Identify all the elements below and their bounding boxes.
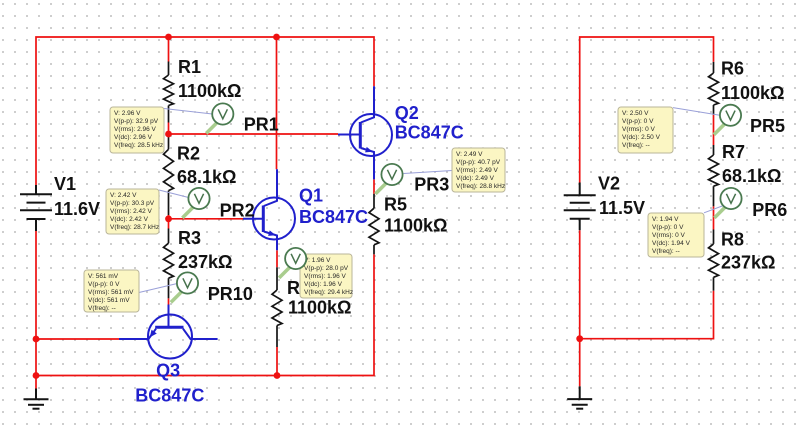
svg-text:V(freq): 28.5 kHz: V(freq): 28.5 kHz [114,142,163,149]
svg-text:V(freq): --: V(freq): -- [652,248,680,255]
svg-text:68.1kΩ: 68.1kΩ [177,167,236,187]
svg-text:V2: V2 [598,173,620,193]
svg-text:V: 2.42 V: V: 2.42 V [110,192,137,199]
svg-text:R1: R1 [178,57,201,77]
svg-text:68.1kΩ: 68.1kΩ [722,166,781,186]
svg-text:V: 2.50 V: V: 2.50 V [622,110,649,117]
svg-text:11.6V: 11.6V [54,199,100,219]
svg-text:R: R [287,278,300,298]
svg-text:V(freq): 28.7 kHz: V(freq): 28.7 kHz [110,224,159,231]
svg-text:V(dc): 1.94 V: V(dc): 1.94 V [652,240,691,247]
svg-text:V(rms): 561 mV: V(rms): 561 mV [88,289,134,296]
svg-text:PR1: PR1 [244,114,279,134]
svg-text:PR3: PR3 [414,175,449,195]
svg-text:V1: V1 [54,174,76,194]
svg-text:V(rms): 1.96 V: V(rms): 1.96 V [304,273,347,280]
svg-text:R5: R5 [384,195,407,215]
svg-text:R2: R2 [177,144,200,164]
svg-text:V: 561 mV: V: 561 mV [88,273,119,280]
svg-text:BC847C: BC847C [135,386,204,406]
svg-text:V(dc): 1.96 V: V(dc): 1.96 V [304,281,343,288]
svg-text:V(freq): --: V(freq): -- [88,305,116,312]
svg-text:V(dc): 2.42 V: V(dc): 2.42 V [110,216,149,223]
svg-text:V(p-p): 40.7 pV: V(p-p): 40.7 pV [456,159,501,166]
svg-text:Q3: Q3 [156,360,180,380]
svg-text:11.5V: 11.5V [599,198,645,218]
svg-text:V(rms): 2.96 V: V(rms): 2.96 V [114,126,157,133]
svg-text:BC847C: BC847C [299,207,368,227]
svg-text:Q2: Q2 [395,103,419,123]
svg-text:1100kΩ: 1100kΩ [288,298,352,318]
svg-text:PR6: PR6 [752,200,787,220]
svg-text:V: 2.49 V: V: 2.49 V [456,151,483,158]
svg-text:V(dc): 2.96 V: V(dc): 2.96 V [114,134,153,141]
svg-text:V(rms): 2.42 V: V(rms): 2.42 V [110,208,153,215]
svg-text:PR5: PR5 [750,116,785,136]
svg-text:V(freq): 29.4 kHz: V(freq): 29.4 kHz [304,289,353,296]
svg-text:V(p-p): 32.9 pV: V(p-p): 32.9 pV [114,118,159,125]
svg-text:Q1: Q1 [299,185,323,205]
svg-text:V(p-p): 30.3 pV: V(p-p): 30.3 pV [110,200,155,207]
svg-text:V: 1.96 V: V: 1.96 V [304,257,331,264]
svg-text:PR2: PR2 [220,200,255,220]
svg-text:237kΩ: 237kΩ [721,253,775,273]
svg-text:V(rms): 0 V: V(rms): 0 V [622,126,656,133]
svg-text:V(p-p): 0 V: V(p-p): 0 V [622,118,654,125]
svg-text:V(p-p): 28.0 pV: V(p-p): 28.0 pV [304,265,349,272]
svg-text:V(dc): 2.50 V: V(dc): 2.50 V [622,134,661,141]
svg-text:R3: R3 [178,228,201,248]
svg-text:V(p-p): 0 V: V(p-p): 0 V [652,224,684,231]
svg-text:V(freq): 28.8 kHz: V(freq): 28.8 kHz [456,183,505,190]
svg-text:BC847C: BC847C [395,123,464,143]
svg-text:V: 2.96 V: V: 2.96 V [114,110,141,117]
svg-text:1100kΩ: 1100kΩ [721,83,785,103]
svg-text:1100kΩ: 1100kΩ [178,81,242,101]
svg-text:V(rms): 0 V: V(rms): 0 V [652,232,686,239]
svg-text:R7: R7 [722,142,745,162]
svg-text:V(rms): 2.49 V: V(rms): 2.49 V [456,167,499,174]
svg-text:237kΩ: 237kΩ [178,252,232,272]
svg-text:R6: R6 [721,58,744,78]
svg-text:PR10: PR10 [208,284,253,304]
svg-text:1100kΩ: 1100kΩ [384,216,448,236]
svg-text:V(freq): --: V(freq): -- [622,142,650,149]
svg-text:V(dc): 561 mV: V(dc): 561 mV [88,297,130,304]
svg-text:V(dc): 2.49 V: V(dc): 2.49 V [456,175,495,182]
svg-text:V(p-p): 0 V: V(p-p): 0 V [88,281,120,288]
svg-text:R8: R8 [721,229,744,249]
svg-text:V: 1.94 V: V: 1.94 V [652,216,679,223]
